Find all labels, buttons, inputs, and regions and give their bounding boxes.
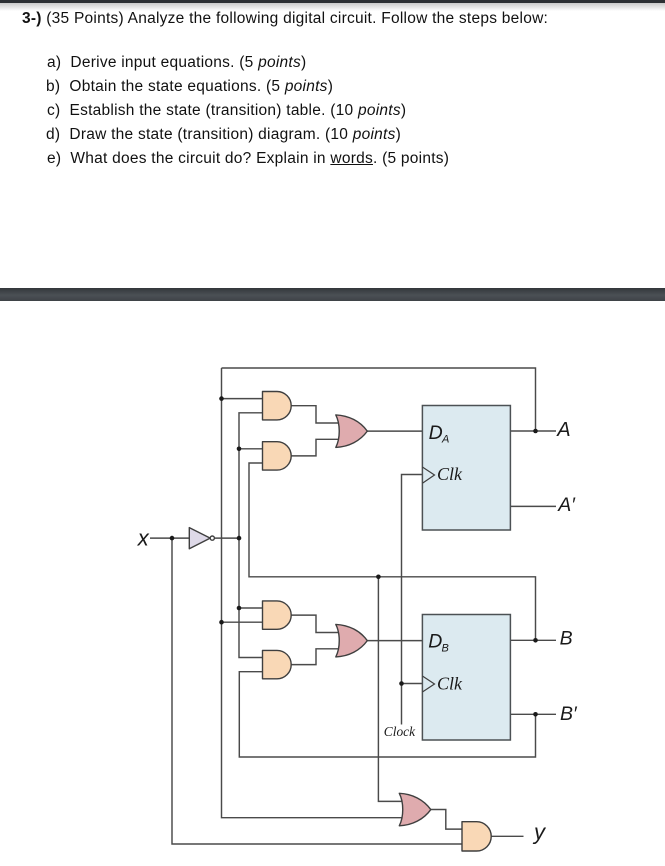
wire top feedback A xyxy=(222,368,536,431)
wire A-prime output xyxy=(511,505,557,507)
inverter bubble xyxy=(210,536,214,540)
svg-text:Clk: Clk xyxy=(437,674,463,694)
svg-text:Clk: Clk xyxy=(437,464,463,484)
svg-text:A′: A′ xyxy=(557,494,576,516)
wire x vertical to AND5 bottom input xyxy=(172,538,462,844)
list items xyxy=(47,55,306,71)
svg-text:A: A xyxy=(441,434,449,446)
clk triangle A xyxy=(422,467,434,483)
wire AND5 output to y xyxy=(491,835,523,837)
svg-text:D: D xyxy=(429,422,443,444)
inverter xyxy=(189,528,210,549)
wire AND2 output to OR1 bottom input xyxy=(291,439,341,456)
svg-text:D: D xyxy=(428,631,442,653)
junction node B tap xyxy=(376,575,381,580)
junction node clock B xyxy=(399,681,404,686)
and gate 4 xyxy=(263,650,292,678)
wire inverter output xyxy=(215,537,239,539)
top dark edge line xyxy=(0,0,665,3)
wire clock stub to Clk B xyxy=(402,683,423,685)
wire AND2 top input stub (x-prime) xyxy=(239,448,263,450)
or gate 2 xyxy=(336,624,368,657)
junction node A-AND1 xyxy=(219,396,224,401)
wire clock vertical xyxy=(402,475,423,725)
separator bar xyxy=(0,288,665,301)
svg-text:x: x xyxy=(137,526,150,551)
wire AND1 output to OR1 top input xyxy=(291,406,341,423)
wire OR1 output to DA input xyxy=(367,430,423,432)
or gate 1 xyxy=(336,415,368,448)
flip-flop DB box xyxy=(422,615,510,741)
and gate 2 xyxy=(263,442,292,470)
wire OR3 output to AND5 top input xyxy=(431,810,462,830)
svg-text:Clock: Clock xyxy=(384,724,416,739)
wire AND1 top input stub (A) xyxy=(222,398,264,400)
svg-text:B: B xyxy=(560,627,573,649)
clk triangle B xyxy=(422,676,434,692)
junction node x tap xyxy=(170,536,175,541)
wire A output xyxy=(511,430,557,432)
junction node x-prime AND3 xyxy=(237,606,242,611)
and gate 1 xyxy=(263,392,292,420)
wire x-prime vertical bus xyxy=(239,413,263,658)
junction node B output xyxy=(533,638,538,643)
wire B output xyxy=(511,639,557,641)
wire B net to AND2 bottom input xyxy=(249,463,536,640)
and gate 3 xyxy=(263,601,292,629)
wire AND4 output to OR2 bottom input xyxy=(291,649,341,665)
junction node x-prime xyxy=(237,536,242,541)
wire AND3 output to OR2 top input xyxy=(291,615,341,632)
wire B tap down to OR3 top input xyxy=(378,577,404,802)
svg-text:B′: B′ xyxy=(560,703,578,725)
wire AND3 bottom input stub (A) xyxy=(222,621,264,623)
or gate 3 xyxy=(399,793,431,826)
svg-text:B: B xyxy=(442,643,449,655)
junction node A output xyxy=(533,429,538,434)
junction node A-AND3 xyxy=(219,620,224,625)
wire AND3 top input stub (x-prime) xyxy=(239,607,263,609)
flip-flop DA box xyxy=(422,406,510,531)
title line xyxy=(22,11,548,27)
wire x input xyxy=(150,537,189,539)
junction node x-prime AND2 xyxy=(237,447,242,452)
junction node B-prime output xyxy=(533,712,538,717)
and gate 5 xyxy=(462,822,491,851)
svg-text:A: A xyxy=(556,419,570,441)
svg-text:y: y xyxy=(532,820,547,845)
wire left vertical A net xyxy=(222,368,405,818)
wire B-prime feedback to AND4 bottom input xyxy=(239,672,535,757)
wire OR2 output to DB input xyxy=(367,640,423,642)
wire B-prime output xyxy=(511,713,557,715)
